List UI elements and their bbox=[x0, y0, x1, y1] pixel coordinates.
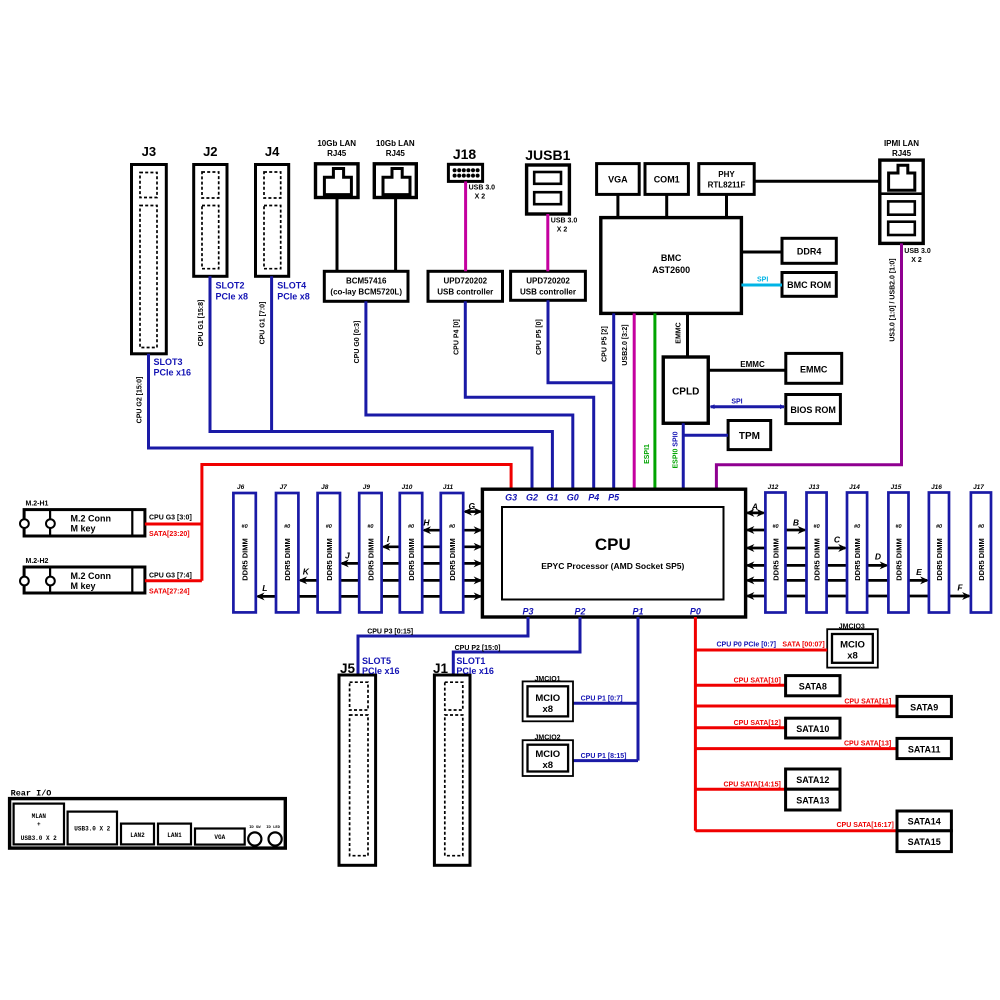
svg-text:CPU G1 [15:8]: CPU G1 [15:8] bbox=[198, 300, 205, 347]
svg-text:CPU SATA[16:17]: CPU SATA[16:17] bbox=[836, 822, 893, 829]
svg-text:COM1: COM1 bbox=[654, 175, 680, 185]
svg-text:J13: J13 bbox=[809, 484, 820, 491]
svg-text:USB2.0 [3:2]: USB2.0 [3:2] bbox=[622, 324, 629, 365]
svg-text:CPU G0 [0:3]: CPU G0 [0:3] bbox=[354, 321, 361, 364]
svg-text:RJ45: RJ45 bbox=[327, 149, 347, 158]
svg-text:M.2 Conn: M.2 Conn bbox=[71, 514, 112, 524]
svg-text:DDR5 DIMM: DDR5 DIMM bbox=[325, 538, 334, 581]
svg-text:USB 3.0: USB 3.0 bbox=[469, 185, 496, 192]
svg-text:UPD720202: UPD720202 bbox=[444, 277, 488, 286]
svg-text:J10: J10 bbox=[402, 484, 413, 491]
svg-text:x8: x8 bbox=[543, 704, 554, 715]
svg-text:ID SW: ID SW bbox=[249, 826, 261, 830]
svg-text:MLAN: MLAN bbox=[32, 813, 47, 820]
svg-text:LAN1: LAN1 bbox=[167, 832, 182, 839]
svg-text:DDR5 DIMM: DDR5 DIMM bbox=[283, 538, 292, 581]
svg-text:J6: J6 bbox=[237, 484, 245, 491]
svg-text:TPM: TPM bbox=[739, 431, 760, 442]
svg-text:SLOT4: SLOT4 bbox=[277, 281, 306, 291]
svg-text:CPU P2 [15:0]: CPU P2 [15:0] bbox=[455, 645, 501, 652]
svg-text:DDR5 DIMM: DDR5 DIMM bbox=[448, 538, 457, 581]
svg-text:G1: G1 bbox=[546, 493, 558, 503]
svg-text:x8: x8 bbox=[543, 760, 554, 771]
svg-text:#0: #0 bbox=[854, 524, 860, 530]
svg-text:SPI: SPI bbox=[731, 399, 742, 406]
svg-text:#0: #0 bbox=[326, 524, 332, 530]
svg-text:SATA[27:24]: SATA[27:24] bbox=[149, 589, 190, 596]
svg-text:CPU SATA[12]: CPU SATA[12] bbox=[734, 720, 781, 727]
svg-text:RJ45: RJ45 bbox=[892, 149, 912, 158]
svg-text:DDR5 DIMM: DDR5 DIMM bbox=[772, 538, 781, 581]
svg-text:CPLD: CPLD bbox=[672, 387, 699, 398]
svg-text:CPU P1 [8:15]: CPU P1 [8:15] bbox=[581, 753, 627, 760]
svg-text:J2: J2 bbox=[203, 144, 217, 159]
svg-text:CPU G3 [7:4]: CPU G3 [7:4] bbox=[149, 573, 192, 580]
svg-text:MCIO: MCIO bbox=[535, 749, 560, 760]
svg-text:J9: J9 bbox=[363, 484, 371, 491]
svg-text:#0: #0 bbox=[367, 524, 373, 530]
svg-text:SATA10: SATA10 bbox=[796, 724, 829, 734]
svg-text:MCIO: MCIO bbox=[535, 693, 560, 704]
svg-text:USB controller: USB controller bbox=[520, 288, 576, 297]
svg-text:J: J bbox=[345, 551, 350, 561]
svg-text:#0: #0 bbox=[284, 524, 290, 530]
svg-text:J15: J15 bbox=[891, 484, 902, 491]
svg-text:USB3.0 X 2: USB3.0 X 2 bbox=[74, 826, 110, 833]
svg-text:SATA13: SATA13 bbox=[796, 795, 829, 805]
svg-text:M.2-H2: M.2-H2 bbox=[26, 558, 49, 565]
svg-text:PCIe x16: PCIe x16 bbox=[362, 666, 400, 676]
svg-text:PCIe x16: PCIe x16 bbox=[154, 368, 192, 378]
svg-text:BMC: BMC bbox=[661, 253, 682, 263]
svg-text:#0: #0 bbox=[449, 524, 455, 530]
svg-text:RTL8211F: RTL8211F bbox=[708, 181, 746, 190]
svg-text:SPI: SPI bbox=[757, 277, 768, 284]
svg-text:C: C bbox=[834, 535, 841, 545]
svg-text:J4: J4 bbox=[265, 144, 280, 159]
svg-text:CPU P5 [2]: CPU P5 [2] bbox=[602, 326, 609, 362]
svg-text:EMMC: EMMC bbox=[740, 360, 765, 369]
svg-text:DDR5 DIMM: DDR5 DIMM bbox=[977, 538, 986, 581]
svg-text:M key: M key bbox=[71, 581, 96, 591]
svg-text:DDR5 DIMM: DDR5 DIMM bbox=[241, 538, 250, 581]
svg-text:10Gb LAN: 10Gb LAN bbox=[376, 139, 415, 148]
svg-text:EMMC: EMMC bbox=[800, 365, 828, 375]
svg-text:DDR5 DIMM: DDR5 DIMM bbox=[935, 538, 944, 581]
svg-text:DDR4: DDR4 bbox=[797, 247, 822, 257]
svg-text:J16: J16 bbox=[931, 484, 942, 491]
svg-text:CPU SATA[11]: CPU SATA[11] bbox=[844, 699, 891, 706]
svg-text:DDR5 DIMM: DDR5 DIMM bbox=[895, 538, 904, 581]
svg-text:CPU G3 [3:0]: CPU G3 [3:0] bbox=[149, 515, 192, 522]
svg-text:SLOT3: SLOT3 bbox=[154, 357, 183, 367]
svg-text:#0: #0 bbox=[772, 524, 778, 530]
svg-text:USB 3.0: USB 3.0 bbox=[551, 218, 578, 225]
svg-text:CPU P4 [0]: CPU P4 [0] bbox=[453, 319, 460, 355]
svg-text:USB controller: USB controller bbox=[437, 288, 493, 297]
svg-text:SATA14: SATA14 bbox=[908, 817, 941, 827]
svg-text:USB3.0 X 2: USB3.0 X 2 bbox=[21, 835, 57, 842]
svg-text:(co-lay BCM5720L): (co-lay BCM5720L) bbox=[330, 288, 402, 297]
svg-text:RJ45: RJ45 bbox=[386, 149, 406, 158]
svg-text:+: + bbox=[37, 821, 41, 828]
svg-text:SATA9: SATA9 bbox=[910, 702, 938, 712]
svg-text:USB 3.0: USB 3.0 bbox=[904, 248, 931, 255]
svg-text:#0: #0 bbox=[408, 524, 414, 530]
svg-text:MCIO: MCIO bbox=[840, 640, 865, 651]
svg-text:ESPI1: ESPI1 bbox=[644, 444, 651, 464]
svg-text:AST2600: AST2600 bbox=[652, 265, 690, 275]
svg-text:L: L bbox=[262, 583, 267, 593]
svg-text:P3: P3 bbox=[522, 607, 533, 617]
svg-text:M.2 Conn: M.2 Conn bbox=[71, 571, 112, 581]
svg-text:I: I bbox=[387, 534, 390, 544]
svg-text:PCIe x8: PCIe x8 bbox=[216, 292, 249, 302]
svg-text:SLOT1: SLOT1 bbox=[456, 656, 485, 666]
svg-text:VGA: VGA bbox=[214, 834, 225, 841]
svg-text:EMMC: EMMC bbox=[676, 322, 683, 343]
svg-text:SATA [00:07]: SATA [00:07] bbox=[782, 642, 824, 649]
svg-text:J8: J8 bbox=[321, 484, 329, 491]
svg-text:#0: #0 bbox=[978, 524, 984, 530]
svg-text:PCIe x16: PCIe x16 bbox=[456, 666, 494, 676]
svg-text:J1: J1 bbox=[433, 661, 449, 676]
svg-text:VGA: VGA bbox=[608, 175, 628, 185]
svg-text:CPU G1 [7:0]: CPU G1 [7:0] bbox=[260, 302, 267, 345]
svg-text:SLOT2: SLOT2 bbox=[216, 281, 245, 291]
svg-text:SATA[23:20]: SATA[23:20] bbox=[149, 531, 190, 538]
svg-text:J17: J17 bbox=[973, 484, 984, 491]
svg-text:G3: G3 bbox=[505, 493, 517, 503]
svg-text:G: G bbox=[468, 501, 475, 511]
svg-text:X 2: X 2 bbox=[475, 194, 486, 201]
svg-text:H: H bbox=[423, 518, 430, 528]
svg-text:P5: P5 bbox=[608, 493, 620, 503]
svg-text:X 2: X 2 bbox=[911, 257, 922, 264]
svg-text:SLOT5: SLOT5 bbox=[362, 656, 391, 666]
svg-text:BCM57416: BCM57416 bbox=[346, 277, 387, 286]
svg-text:CPU P0 PCIe [0:7]: CPU P0 PCIe [0:7] bbox=[716, 642, 776, 649]
svg-text:J18: J18 bbox=[453, 146, 477, 162]
svg-text:JMCIO1: JMCIO1 bbox=[534, 676, 560, 683]
svg-text:#0: #0 bbox=[936, 524, 942, 530]
svg-text:x8: x8 bbox=[847, 651, 858, 662]
svg-text:DDR5 DIMM: DDR5 DIMM bbox=[853, 538, 862, 581]
svg-text:CPU: CPU bbox=[595, 535, 631, 554]
svg-text:J5: J5 bbox=[340, 661, 356, 676]
svg-text:J11: J11 bbox=[443, 484, 454, 491]
svg-text:SATA12: SATA12 bbox=[796, 775, 829, 785]
svg-text:UPD720202: UPD720202 bbox=[526, 277, 570, 286]
svg-text:M.2-H1: M.2-H1 bbox=[26, 501, 49, 508]
svg-text:B: B bbox=[793, 518, 799, 528]
svg-text:#0: #0 bbox=[814, 524, 820, 530]
svg-text:E: E bbox=[916, 567, 922, 577]
svg-text:X 2: X 2 bbox=[557, 227, 568, 234]
svg-text:ESPI0 SPI0: ESPI0 SPI0 bbox=[673, 431, 680, 468]
svg-text:J14: J14 bbox=[849, 484, 860, 491]
svg-text:CPU G2 [15:0]: CPU G2 [15:0] bbox=[137, 377, 144, 424]
svg-text:SATA8: SATA8 bbox=[799, 682, 827, 692]
svg-text:J12: J12 bbox=[768, 484, 779, 491]
svg-text:P4: P4 bbox=[588, 493, 599, 503]
svg-text:BIOS ROM: BIOS ROM bbox=[790, 405, 836, 415]
svg-text:JMCIO3: JMCIO3 bbox=[839, 624, 865, 631]
svg-text:DDR5 DIMM: DDR5 DIMM bbox=[813, 538, 822, 581]
svg-text:CPU P1 [0:7]: CPU P1 [0:7] bbox=[581, 696, 623, 703]
svg-text:JMCIO2: JMCIO2 bbox=[534, 735, 560, 742]
svg-text:IPMI LAN: IPMI LAN bbox=[884, 139, 919, 148]
svg-text:P0: P0 bbox=[690, 607, 701, 617]
svg-text:D: D bbox=[875, 552, 881, 562]
svg-text:ID LED: ID LED bbox=[266, 826, 280, 830]
svg-text:M key: M key bbox=[71, 524, 96, 534]
svg-text:J3: J3 bbox=[142, 144, 156, 159]
svg-text:P1: P1 bbox=[632, 607, 643, 617]
svg-text:DDR5 DIMM: DDR5 DIMM bbox=[366, 538, 375, 581]
svg-text:BMC ROM: BMC ROM bbox=[787, 280, 831, 290]
svg-text:DDR5 DIMM: DDR5 DIMM bbox=[407, 538, 416, 581]
svg-text:JUSB1: JUSB1 bbox=[525, 147, 570, 163]
svg-text:SATA11: SATA11 bbox=[908, 744, 941, 754]
svg-text:10Gb LAN: 10Gb LAN bbox=[317, 139, 356, 148]
svg-text:#0: #0 bbox=[895, 524, 901, 530]
svg-text:CPU SATA[14:15]: CPU SATA[14:15] bbox=[723, 782, 780, 789]
svg-text:CPU P5 [0]: CPU P5 [0] bbox=[536, 319, 543, 355]
svg-text:US3.0 [1:0] / USB2.0 [1:0]: US3.0 [1:0] / USB2.0 [1:0] bbox=[890, 258, 897, 341]
svg-text:#0: #0 bbox=[242, 524, 248, 530]
svg-text:PHY: PHY bbox=[718, 170, 735, 179]
svg-text:A: A bbox=[751, 502, 758, 512]
svg-text:CPU SATA[13]: CPU SATA[13] bbox=[844, 741, 891, 748]
svg-text:F: F bbox=[957, 583, 963, 593]
svg-text:G0: G0 bbox=[567, 493, 579, 503]
svg-text:K: K bbox=[303, 567, 310, 577]
svg-text:LAN2: LAN2 bbox=[130, 832, 145, 839]
svg-text:PCIe x8: PCIe x8 bbox=[277, 292, 310, 302]
svg-text:CPU P3 [0:15]: CPU P3 [0:15] bbox=[367, 629, 413, 636]
svg-text:CPU SATA[10]: CPU SATA[10] bbox=[734, 678, 781, 685]
svg-text:SATA15: SATA15 bbox=[908, 837, 941, 847]
svg-text:J7: J7 bbox=[280, 484, 288, 491]
svg-text:P2: P2 bbox=[574, 607, 585, 617]
svg-text:G2: G2 bbox=[526, 493, 538, 503]
svg-text:EPYC Processor (AMD Socket SP5: EPYC Processor (AMD Socket SP5) bbox=[541, 561, 684, 571]
